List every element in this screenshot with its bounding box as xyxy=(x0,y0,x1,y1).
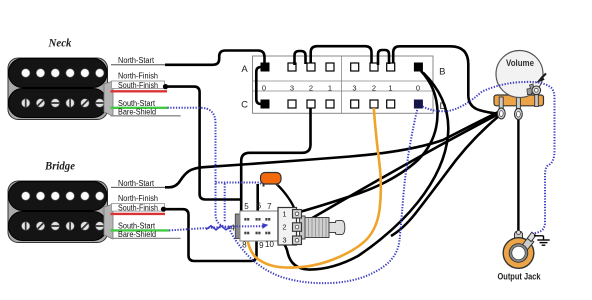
pot lug 3 xyxy=(293,236,302,245)
terminal D2 xyxy=(370,100,378,108)
svg-text:6: 6 xyxy=(257,202,262,211)
coil south (screws) xyxy=(9,89,108,118)
pot lug 1 xyxy=(293,210,302,219)
DPDT body xyxy=(240,211,282,241)
screw slots xyxy=(26,223,103,230)
ground wire dotted to capacitor leg xyxy=(216,183,262,185)
jumper switch B2 to B1 (black loop) xyxy=(378,50,389,65)
baseplate xyxy=(8,181,108,243)
output jack xyxy=(498,231,550,282)
wire pot lug2 diagonal to volume lug1 (black) xyxy=(297,114,500,228)
terminal B2 xyxy=(370,63,378,71)
solder dot bridge South-Finish xyxy=(161,207,166,212)
wire switch A2 over the top to B2 (black) xyxy=(311,46,372,63)
slug poles xyxy=(21,69,104,78)
svg-text:0: 0 xyxy=(416,83,420,92)
svg-text:9: 9 xyxy=(259,241,264,250)
bridge wire labels xyxy=(111,179,181,239)
svg-text:1: 1 xyxy=(328,83,332,92)
screw poles xyxy=(21,99,104,108)
wire volume lug1 descender merging into swoop (black) xyxy=(391,116,500,237)
svg-text:1: 1 xyxy=(282,210,286,219)
lug3 bent up eyelet xyxy=(532,86,541,95)
terminal screws top row xyxy=(244,218,270,221)
svg-text:7: 7 xyxy=(267,202,272,211)
wire neck North-Start to switch A0 (black) xyxy=(165,51,265,65)
coil north (slug) xyxy=(9,59,108,88)
terminal A2 xyxy=(307,63,315,71)
terminal C2 xyxy=(307,100,315,108)
wire switch B1 over the top to volume lug1 (black) xyxy=(393,46,497,113)
svg-text:5: 5 xyxy=(244,202,249,211)
svg-text:Neck: Neck xyxy=(48,38,72,50)
jumper switch A3 to A2 (black loop) xyxy=(295,51,306,65)
svg-text:Bridge: Bridge xyxy=(44,161,75,173)
switch center divider xyxy=(341,56,343,113)
ground wire switch D0 past volume lug3 to output jack sleeve (dotted) xyxy=(423,82,555,234)
selector switch body xyxy=(241,56,446,113)
wire switch B0 to push-pull lug1 (black) xyxy=(300,71,438,212)
svg-text:Output Jack: Output Jack xyxy=(498,272,542,282)
ground tab 4 (gray bar) xyxy=(235,214,240,239)
pot base xyxy=(494,95,544,106)
terminal D1 xyxy=(387,100,395,108)
svg-text:2: 2 xyxy=(282,223,286,232)
terminal C3 xyxy=(288,100,296,108)
svg-text:A: A xyxy=(241,64,248,75)
terminal C1 xyxy=(326,100,334,108)
jack center hole xyxy=(511,245,527,261)
svg-text:10: 10 xyxy=(265,240,274,249)
solder pointer arrow xyxy=(536,76,545,83)
lug1 eyelet xyxy=(497,108,505,119)
svg-text:North-Start: North-Start xyxy=(118,179,155,188)
baseplate xyxy=(8,58,108,120)
svg-text:North-Start: North-Start xyxy=(118,56,155,65)
casing ground tab xyxy=(527,84,534,95)
terminal D0 (filled, ground) xyxy=(414,100,423,109)
svg-text:3: 3 xyxy=(282,236,286,245)
pot can circle xyxy=(496,51,543,98)
ground junction squiggle xyxy=(206,226,231,230)
svg-text:3: 3 xyxy=(352,83,356,92)
pot body plate xyxy=(278,208,297,246)
lug3 stem xyxy=(535,93,539,107)
svg-text:Volume: Volume xyxy=(506,58,534,68)
screw poles xyxy=(21,222,104,231)
tip tab xyxy=(515,232,523,239)
wire neck South-Finish to junction, down, to push-pull terminal 5 (black) xyxy=(166,87,249,217)
capacitor to pot lug1 wire (black) xyxy=(277,184,296,212)
terminal A0 (filled) xyxy=(261,63,270,72)
svg-text:C: C xyxy=(241,100,248,111)
svg-text:South-Finish: South-Finish xyxy=(118,204,158,213)
pot lug 2 xyxy=(293,223,302,232)
sleeve lug arm xyxy=(518,237,534,254)
wire bridge North-Start rising to volume lug1 (black) xyxy=(165,112,499,188)
svg-text:2: 2 xyxy=(372,83,376,92)
screw slots xyxy=(26,100,103,107)
ground wire big swoop junction to switch D0 (dotted) xyxy=(229,109,418,284)
terminal screws bottom row xyxy=(244,232,270,235)
svg-text:1: 1 xyxy=(388,83,392,92)
ground symbol xyxy=(534,236,550,245)
svg-text:0: 0 xyxy=(262,83,266,92)
wire bundle exit xyxy=(104,81,113,116)
jack washer ring xyxy=(503,238,534,269)
coil north (slug) xyxy=(9,182,108,211)
svg-text:8: 8 xyxy=(242,241,247,250)
svg-text:North-Finish: North-Finish xyxy=(118,72,158,81)
slug poles xyxy=(21,192,104,201)
terminal B0 (filled) xyxy=(414,63,423,72)
pickup Neck xyxy=(8,38,113,120)
wire orange: push-pull terminal 8 swoop to switch D2 xyxy=(247,108,381,268)
switch row lines xyxy=(253,80,434,82)
terminal A1 xyxy=(326,63,334,71)
svg-text:3: 3 xyxy=(290,83,294,92)
lug stems xyxy=(499,97,520,109)
ground wire bridge South-Start dotted to junction xyxy=(169,227,228,231)
wire bundle exit xyxy=(104,204,113,239)
sleeve lug tip xyxy=(527,232,536,241)
wire volume lug2 to output jack tip (black) xyxy=(517,119,519,232)
svg-text:North-Finish: North-Finish xyxy=(118,194,158,203)
pin numbers xyxy=(230,202,274,250)
ground wire junction into push-pull (dotted with arrow) xyxy=(228,225,264,227)
volume pot xyxy=(494,51,546,120)
jumper switch A0 to C0 (black) xyxy=(256,67,263,104)
pot bushing (threaded) xyxy=(300,216,306,239)
ground wire neck South-Start dotted to junction xyxy=(168,108,229,227)
solder dot neck South-Finish xyxy=(163,84,168,89)
svg-text:B: B xyxy=(439,67,445,78)
wire switch B0 swoop to push-pull terminal 10 (black) xyxy=(269,73,449,270)
wire switch C2 to junction above terminal 5 (black) xyxy=(241,108,310,200)
push-pull switch assembly xyxy=(230,202,345,250)
svg-text:South-Finish: South-Finish xyxy=(118,81,158,90)
wire push-pull pin6 tap from bridge wire (black) xyxy=(256,184,259,219)
terminal A3 xyxy=(288,63,296,71)
coil south (screws) xyxy=(9,212,108,241)
pot shaft xyxy=(329,221,345,235)
terminal B1 xyxy=(387,63,395,71)
position numbers row xyxy=(262,83,420,92)
terminal D3 xyxy=(351,100,359,108)
svg-text:2: 2 xyxy=(309,83,313,92)
terminal C0 (filled) xyxy=(261,100,270,109)
lug2 eyelet xyxy=(515,109,523,120)
wire bridge South-Finish down and to push-pull terminal 9 (black) xyxy=(164,209,257,261)
pot lug numbers xyxy=(282,210,286,245)
capacitor C1 (orange drop) xyxy=(261,173,282,187)
pickup Bridge xyxy=(8,161,113,243)
terminal B3 xyxy=(351,63,359,71)
neck wire labels xyxy=(111,56,181,116)
